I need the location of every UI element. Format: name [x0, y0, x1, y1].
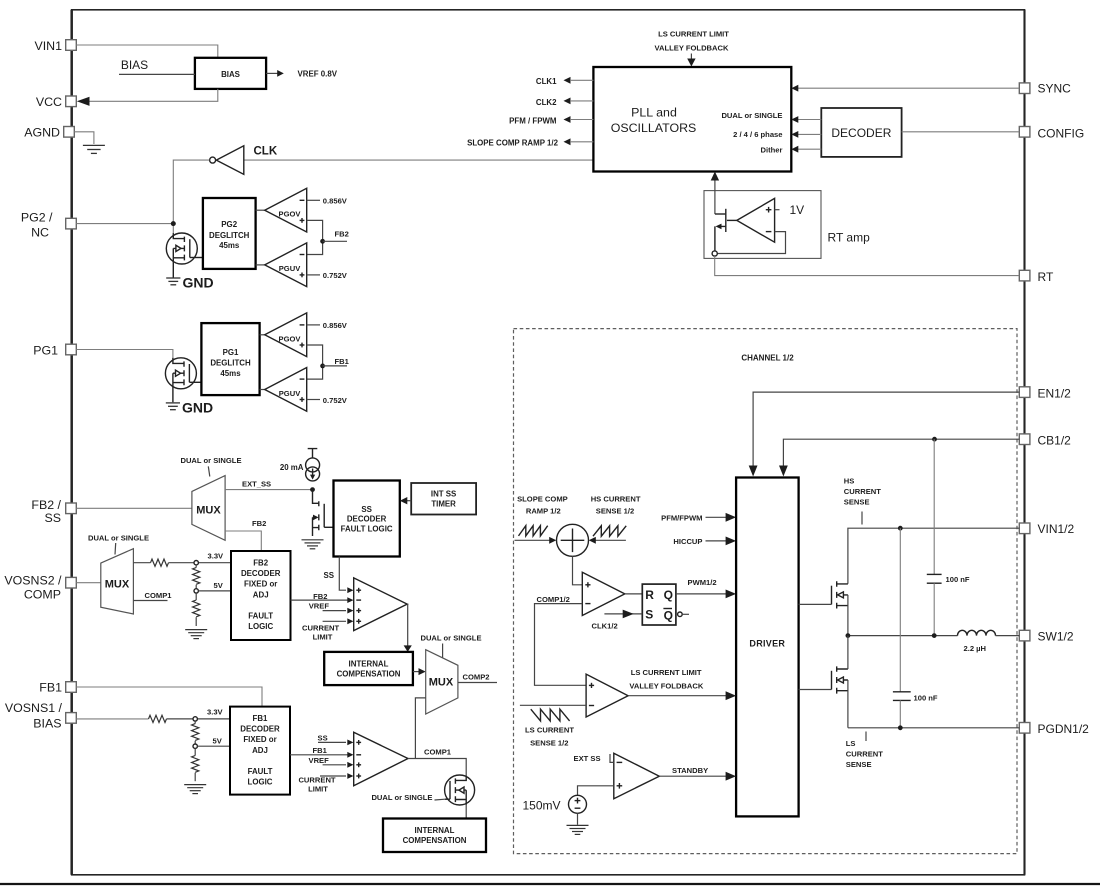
svg-text:FB2 /: FB2 /	[31, 498, 61, 512]
wire BIAS to VCC	[82, 89, 218, 101]
svg-text:SLOPE COMP RAMP 1/2: SLOPE COMP RAMP 1/2	[467, 139, 559, 148]
wire COMP2 output	[458, 673, 497, 683]
wire VOSNS2 pin to MUX	[76, 582, 101, 584]
resistor divider upper (VOSNS2)	[193, 565, 200, 589]
svg-text:RT amp: RT amp	[828, 231, 871, 245]
wire VIN1 to BIAS	[76, 45, 218, 58]
MUX M1 (FB2/SS demux)	[192, 476, 225, 541]
svg-text:VREF: VREF	[309, 756, 330, 765]
label EXT SS and stub	[574, 754, 614, 763]
label DUAL or SINGLE (M2)	[88, 533, 149, 554]
ground at Q-SS	[302, 540, 324, 549]
source V-150mV	[522, 795, 586, 813]
pin VOSNS2/COMP	[4, 574, 76, 602]
svg-text:PG1: PG1	[223, 348, 239, 357]
svg-text:FAULT: FAULT	[248, 612, 273, 621]
node RT (open)	[712, 251, 717, 256]
pin RT	[1019, 270, 1054, 284]
VREF 0.8V output	[266, 70, 338, 79]
CLK inverter U-CLK	[210, 146, 594, 175]
svg-text:HS: HS	[844, 476, 855, 485]
wire FB1 pin to FB1 DECODER	[76, 687, 262, 707]
svg-text:MUX: MUX	[429, 677, 454, 689]
wire RT pin	[715, 256, 1020, 276]
svg-text:45ms: 45ms	[220, 369, 241, 378]
wire PG1 pin	[76, 350, 173, 360]
svg-text:PGDN1/2: PGDN1/2	[1038, 722, 1090, 736]
svg-text:EN1/2: EN1/2	[1038, 387, 1072, 401]
svg-text:0.856V: 0.856V	[323, 197, 348, 206]
pin FB1	[39, 680, 76, 694]
svg-text:FB2: FB2	[313, 592, 327, 601]
svg-text:FB1: FB1	[313, 746, 328, 755]
svg-text:Q: Q	[664, 609, 673, 623]
svg-text:2.2 µH: 2.2 µH	[964, 644, 987, 653]
wire CLK1/2 into S	[592, 610, 643, 631]
svg-text:CHANNEL 1/2: CHANNEL 1/2	[741, 353, 794, 362]
wire into summing node (right)	[589, 537, 626, 544]
arrow into VCC pin	[77, 97, 90, 106]
0.752V ref (PG1)	[307, 396, 348, 405]
label LS CURRENT SENSE	[846, 732, 883, 770]
svg-text:100 nF: 100 nF	[946, 575, 970, 584]
BIAS block	[195, 58, 266, 89]
error amp EA2	[347, 578, 407, 631]
pin PG2/NC	[21, 211, 76, 240]
svg-text:5V: 5V	[213, 737, 223, 746]
INT SS TIMER block	[411, 483, 476, 515]
wire into summing node (left)	[515, 537, 557, 544]
ground GND at PG1	[166, 400, 213, 416]
svg-text:DUAL or SINGLE: DUAL or SINGLE	[420, 634, 481, 643]
svg-text:S: S	[645, 608, 653, 622]
transistor Q-COMP1 (in circle)	[445, 775, 475, 805]
pin FB2/SS	[31, 498, 76, 525]
svg-text:DUAL or SINGLE: DUAL or SINGLE	[88, 533, 149, 542]
node 5V (open)	[194, 581, 231, 593]
svg-text:PFM / FPWM: PFM / FPWM	[509, 116, 557, 125]
svg-text:LIMIT: LIMIT	[308, 785, 328, 794]
transistor Q-HS	[799, 581, 848, 635]
svg-text:INTERNAL: INTERNAL	[349, 659, 389, 668]
error amp EA1	[347, 732, 408, 786]
svg-text:0.752V: 0.752V	[323, 271, 348, 280]
svg-text:COMPENSATION: COMPENSATION	[337, 669, 401, 678]
ground at VOSNS1 divider	[184, 785, 206, 794]
wire STANDBY to DRIVER	[659, 766, 736, 781]
svg-text:SW1/2: SW1/2	[1038, 630, 1074, 644]
svg-text:GND: GND	[182, 400, 213, 416]
pin CONFIG	[1019, 127, 1084, 141]
pin EN1/2	[1019, 387, 1071, 401]
svg-text:SENSE 1/2: SENSE 1/2	[530, 739, 568, 748]
right pin bus	[1023, 10, 1025, 875]
pin VOSNS1/BIAS	[5, 701, 76, 730]
svg-text:LOGIC: LOGIC	[248, 622, 273, 631]
resistor divider lower (VOSNS2)	[193, 593, 200, 626]
wire SYNC to PLL	[791, 85, 1019, 92]
ground at AGND	[83, 145, 105, 153]
0.856V ref (PG2)	[307, 197, 348, 206]
comparator PGUV (PG1)	[260, 368, 307, 412]
ground at VOSNS2 divider	[185, 630, 207, 639]
wires DECODER to PLL	[791, 116, 821, 123]
label DUAL or SINGLE (Q-COMP1)	[371, 793, 445, 802]
summing node SUM1	[557, 524, 589, 556]
svg-text:VIN1: VIN1	[34, 39, 62, 53]
RT amp enclosure box	[704, 191, 821, 259]
svg-text:CURRENT: CURRENT	[844, 487, 881, 496]
svg-text:100 nF: 100 nF	[914, 693, 938, 702]
transistor Q-PG1 (pulldown in circle)	[165, 358, 201, 402]
svg-text:PGUV: PGUV	[279, 389, 301, 398]
svg-text:VCC: VCC	[36, 95, 62, 109]
wire COMP1 feedback to M3	[415, 698, 425, 759]
svg-text:LOGIC: LOGIC	[248, 778, 273, 787]
MUX M3 (COMP2)	[426, 650, 458, 714]
svg-text:3.3V: 3.3V	[207, 707, 224, 716]
svg-text:VALLEY FOLDBACK: VALLEY FOLDBACK	[655, 44, 729, 53]
stub CURRENT LIMIT into EA1	[298, 775, 346, 793]
svg-text:HS CURRENT: HS CURRENT	[591, 495, 641, 504]
comparator PGOV (PG1)	[260, 313, 307, 357]
svg-text:INTERNAL: INTERNAL	[415, 826, 455, 835]
svg-text:DUAL or SINGLE: DUAL or SINGLE	[721, 111, 782, 120]
svg-text:3.3V: 3.3V	[208, 552, 225, 561]
svg-text:PG2 /: PG2 /	[21, 211, 53, 225]
svg-text:INT SS: INT SS	[431, 490, 456, 499]
arrow INT COMP to MUX M3	[413, 668, 426, 675]
svg-text:FAULT: FAULT	[248, 767, 273, 776]
svg-text:PFM/FPWM: PFM/FPWM	[661, 514, 702, 523]
sawtooth ramp (right)	[593, 526, 626, 536]
wire VOSNS1 pin and resistor R-in1	[76, 715, 230, 722]
svg-text:COMP1: COMP1	[424, 748, 452, 757]
node FB1	[320, 357, 349, 368]
wire SS into EA2	[323, 557, 346, 591]
SS DECODER FAULT LOGIC block	[334, 481, 400, 557]
INTERNAL COMPENSATION block 1	[324, 652, 413, 685]
svg-text:SS: SS	[361, 505, 372, 514]
wire PWM1/2 to DRIVER	[676, 578, 736, 599]
svg-text:0.752V: 0.752V	[323, 396, 348, 405]
svg-text:COMP2: COMP2	[463, 673, 490, 682]
node 3.3V (VOSNS1, open)	[193, 707, 224, 721]
svg-text:VALLEY FOLDBACK: VALLEY FOLDBACK	[629, 682, 703, 691]
MUX M2 (VOSNS2)	[101, 549, 134, 614]
wire to INTERNAL COMPENSATION 2	[465, 805, 467, 819]
wire COMP1 output	[408, 748, 466, 776]
pin PG1	[33, 343, 76, 357]
inductor L1 2.2 uH	[958, 630, 1020, 653]
svg-text:Q: Q	[664, 588, 673, 602]
wire CONFIG to DECODER	[902, 131, 1020, 133]
node 5V (VOSNS1, open)	[193, 737, 230, 749]
svg-text:DECODER: DECODER	[241, 569, 281, 578]
arrow INT SS TIMER to SS DECODER	[400, 497, 411, 504]
0.752V ref (PG2)	[307, 271, 348, 280]
left pin bus	[70, 10, 73, 875]
output SLOPE COMP RAMP 1/2	[467, 138, 593, 147]
svg-text:PG1: PG1	[33, 343, 58, 357]
wire 150mV to U-STBY	[578, 786, 614, 796]
wire PFM/FPWM to DRIVER	[661, 513, 736, 523]
wire FB1 DECODER to error amp	[290, 754, 348, 756]
svg-text:FIXED or: FIXED or	[244, 580, 277, 589]
feedback wire RT amp	[717, 232, 785, 254]
svg-text:SENSE: SENSE	[844, 497, 870, 506]
INTERNAL COMPENSATION block 2	[383, 819, 486, 853]
wire PGOV+ to FB2 node	[307, 220, 323, 254]
FB2 DECODER block	[231, 551, 291, 640]
pin CB1/2	[1019, 434, 1071, 448]
transistor Q-LS	[799, 636, 848, 728]
node 3.3V (open)	[194, 552, 224, 565]
current source I1 20 mA	[280, 449, 320, 481]
svg-text:45ms: 45ms	[219, 241, 240, 250]
wire and resistor R-top (VOSNS2)	[133, 559, 231, 566]
svg-text:0.856V: 0.856V	[323, 321, 348, 330]
svg-text:VIN1/2: VIN1/2	[1038, 522, 1075, 536]
wire LS sense into U-LSCL	[520, 704, 586, 706]
svg-text:EXT SS: EXT SS	[574, 754, 601, 763]
svg-text:AGND: AGND	[24, 125, 60, 139]
stub COMP1 (M2 input)	[133, 591, 172, 601]
svg-text:SENSE: SENSE	[846, 760, 872, 769]
svg-text:CONFIG: CONFIG	[1038, 127, 1085, 141]
svg-text:VOSNS1 /: VOSNS1 /	[5, 701, 63, 715]
svg-text:BIAS: BIAS	[221, 70, 240, 79]
comparator U-PWM	[582, 572, 625, 615]
svg-text:BIAS: BIAS	[33, 716, 61, 730]
svg-text:20 mA: 20 mA	[280, 463, 304, 472]
resistor divider upper (VOSNS1)	[192, 721, 199, 744]
comparator PGUV (PG2)	[256, 243, 307, 287]
svg-text:LS: LS	[846, 739, 856, 748]
svg-text:PWM1/2: PWM1/2	[688, 578, 717, 587]
svg-text:NC: NC	[31, 226, 49, 240]
svg-text:LS CURRENT LIMIT: LS CURRENT LIMIT	[631, 668, 702, 677]
label DUAL or SINGLE (M3)	[420, 634, 481, 658]
PG1 DEGLITCH block	[201, 323, 259, 395]
RS latch U-RS	[642, 584, 676, 625]
op-amp U-RT (1V)	[737, 198, 804, 242]
svg-text:FB2: FB2	[335, 230, 349, 239]
svg-text:CLK1: CLK1	[536, 77, 557, 86]
comparator U-LSCL	[586, 674, 628, 717]
svg-text:DUAL or SINGLE: DUAL or SINGLE	[180, 456, 241, 465]
svg-text:VREF: VREF	[309, 601, 330, 610]
pin AGND	[24, 125, 74, 139]
svg-text:LS CURRENT: LS CURRENT	[525, 725, 574, 734]
svg-text:CURRENT: CURRENT	[302, 624, 339, 633]
svg-text:Dither: Dither	[761, 145, 783, 154]
wire PGOV+ to FB1 node	[307, 345, 323, 379]
svg-text:MUX: MUX	[105, 579, 130, 591]
FB1 DECODER block	[230, 707, 290, 795]
transistor Q-RT	[715, 209, 737, 251]
svg-text:CLK: CLK	[254, 146, 278, 158]
label HS CURRENT SENSE	[844, 476, 881, 524]
DECODER block	[821, 108, 901, 157]
svg-text:SS: SS	[44, 511, 61, 525]
labels HS CURRENT SENSE 1/2	[591, 495, 641, 516]
stub VREF into EA1	[309, 756, 347, 765]
wire BIAS input	[119, 73, 195, 75]
comparator U-STBY (EXT SS)	[614, 753, 660, 798]
resistor divider lower (VOSNS1)	[192, 748, 199, 781]
svg-text:PG2: PG2	[221, 220, 237, 229]
svg-text:DEGLITCH: DEGLITCH	[209, 231, 250, 240]
node EXT_SS junction	[310, 487, 315, 492]
stub SS into EA1	[318, 733, 347, 742]
wire RT amp to PLL bottom	[711, 172, 719, 215]
pin SYNC	[1019, 82, 1071, 96]
PG2 DEGLITCH block	[203, 198, 256, 269]
svg-text:CLK1/2: CLK1/2	[592, 621, 618, 630]
svg-text:HICCUP: HICCUP	[673, 537, 702, 546]
pin VIN1/2	[1019, 522, 1074, 536]
svg-text:PGOV: PGOV	[279, 210, 302, 219]
output CLK1	[536, 77, 594, 86]
comparator PGOV (PG2)	[256, 188, 307, 232]
stub VREF into EA2	[309, 601, 346, 610]
svg-text:ADJ: ADJ	[253, 590, 269, 599]
svg-text:PGOV: PGOV	[279, 334, 302, 343]
svg-text:RAMP 1/2: RAMP 1/2	[526, 507, 561, 516]
DRIVER block	[736, 478, 799, 817]
wire U-PWM to RS latch	[625, 593, 643, 595]
svg-text:COMP: COMP	[24, 588, 61, 602]
transistor Q-PG2 (pulldown in circle)	[166, 233, 203, 278]
stub CURRENT LIMIT into EA2	[302, 621, 346, 641]
svg-text:DECODER: DECODER	[831, 126, 891, 140]
label DUAL or SINGLE (M1)	[180, 456, 241, 477]
output PFM / FPWM	[509, 116, 593, 125]
wire EN1/2 into DRIVER	[749, 392, 1020, 476]
svg-text:2 / 4 / 6 phase: 2 / 4 / 6 phase	[733, 130, 782, 139]
svg-text:FB2: FB2	[253, 559, 269, 568]
wire VIN1/2	[848, 526, 1019, 584]
wire SW1/2 node	[846, 633, 958, 638]
svg-text:SS: SS	[318, 733, 328, 742]
wire HICCUP to DRIVER	[673, 537, 736, 547]
svg-text:COMP1: COMP1	[145, 591, 173, 600]
wire AGND to ground	[74, 132, 94, 144]
svg-text:SENSE 1/2: SENSE 1/2	[596, 507, 634, 516]
svg-text:FIXED or: FIXED or	[243, 735, 276, 744]
svg-text:COMP1/2: COMP1/2	[537, 595, 570, 604]
wire summing node to PWM comparator	[573, 556, 583, 585]
svg-text:DUAL or SINGLE: DUAL or SINGLE	[371, 793, 432, 802]
svg-text:SS: SS	[323, 571, 334, 580]
wire LS CURRENT LIMIT / VALLEY FOLDBACK to DRIVER	[628, 668, 736, 700]
labels LS CURRENT SENSE 1/2	[525, 725, 574, 747]
svg-text:STANDBY: STANDBY	[672, 766, 708, 775]
svg-text:FB1: FB1	[39, 680, 62, 694]
wire EA2 output down	[404, 604, 412, 652]
svg-text:R: R	[645, 588, 654, 602]
svg-text:BIAS: BIAS	[121, 58, 148, 72]
wire FB2/SS pin to MUX	[76, 507, 192, 509]
wire COMP1/2	[535, 595, 587, 686]
sawtooth LS current sense	[531, 709, 570, 721]
svg-text:CLK2: CLK2	[536, 98, 557, 107]
svg-text:VOSNS2 /: VOSNS2 /	[4, 574, 62, 588]
svg-text:150mV: 150mV	[522, 798, 560, 812]
output CLK2	[536, 98, 594, 107]
svg-text:FB1: FB1	[335, 357, 350, 366]
svg-text:CURRENT: CURRENT	[298, 775, 335, 784]
svg-text:VREF 0.8V: VREF 0.8V	[298, 70, 338, 79]
wire PGDN1/2	[848, 725, 1019, 730]
svg-text:SLOPE COMP: SLOPE COMP	[517, 495, 568, 504]
svg-text:FB1: FB1	[253, 714, 269, 723]
wire PG2 pin	[76, 223, 173, 225]
pin SW1/2	[1019, 630, 1074, 644]
CHANNEL 1/2 dashed box	[514, 329, 1018, 854]
wire CLK to PG2 node	[173, 160, 209, 234]
wire CB1/2	[779, 437, 1019, 477]
transistor Q-SS	[313, 490, 334, 536]
svg-text:PLL and: PLL and	[631, 106, 677, 120]
wire into PLL top	[687, 54, 695, 67]
svg-text:5V: 5V	[214, 581, 224, 590]
svg-text:LS CURRENT LIMIT: LS CURRENT LIMIT	[658, 30, 729, 39]
svg-text:DRIVER: DRIVER	[749, 638, 785, 648]
svg-text:CURRENT: CURRENT	[846, 750, 883, 759]
svg-text:ADJ: ADJ	[252, 746, 268, 755]
svg-text:MUX: MUX	[196, 505, 221, 517]
PLL and OSCILLATORS block U-PLL	[593, 67, 791, 172]
label LS CURRENT LIMIT / VALLEY FOLDBACK (top)	[655, 30, 730, 53]
svg-text:SYNC: SYNC	[1038, 82, 1072, 96]
wire FB2 from MUX to FB2 DECODER	[225, 519, 266, 551]
page rule line at bottom	[0, 883, 1100, 885]
svg-text:FAULT LOGIC: FAULT LOGIC	[341, 524, 393, 533]
sawtooth ramp (left)	[519, 526, 548, 536]
pin VCC	[36, 95, 76, 109]
pin VIN1	[34, 39, 76, 53]
wire and ground at 150mV	[567, 813, 589, 834]
capacitor C-LS 100 nF	[893, 528, 938, 728]
labels SLOPE COMP RAMP 1/2	[517, 495, 568, 516]
svg-text:LIMIT: LIMIT	[313, 633, 333, 642]
svg-text:COMPENSATION: COMPENSATION	[403, 836, 467, 845]
svg-text:RT: RT	[1038, 270, 1054, 284]
pin PGDN1/2	[1019, 722, 1089, 736]
Q-bar bubble and stub	[678, 612, 689, 617]
ground GND at PG2	[166, 275, 213, 291]
node FB2	[320, 230, 349, 244]
svg-text:DECODER: DECODER	[240, 725, 280, 734]
0.856V ref (PG1)	[307, 321, 348, 330]
capacitor C-HS 100 nF	[927, 439, 970, 635]
node junction PG2	[171, 221, 176, 226]
wire FB2 DECODER to error amp	[291, 599, 349, 601]
svg-text:1V: 1V	[790, 203, 805, 217]
svg-text:DEGLITCH: DEGLITCH	[210, 359, 251, 368]
svg-text:TIMER: TIMER	[431, 500, 456, 509]
wire EXT_SS	[225, 479, 312, 489]
svg-text:FB2: FB2	[252, 519, 266, 528]
svg-text:DECODER: DECODER	[347, 515, 387, 524]
svg-text:CB1/2: CB1/2	[1038, 434, 1072, 448]
svg-text:OSCILLATORS: OSCILLATORS	[611, 121, 697, 135]
svg-text:EXT_SS: EXT_SS	[242, 479, 271, 488]
svg-text:PGUV: PGUV	[279, 264, 301, 273]
svg-text:GND: GND	[183, 275, 214, 291]
